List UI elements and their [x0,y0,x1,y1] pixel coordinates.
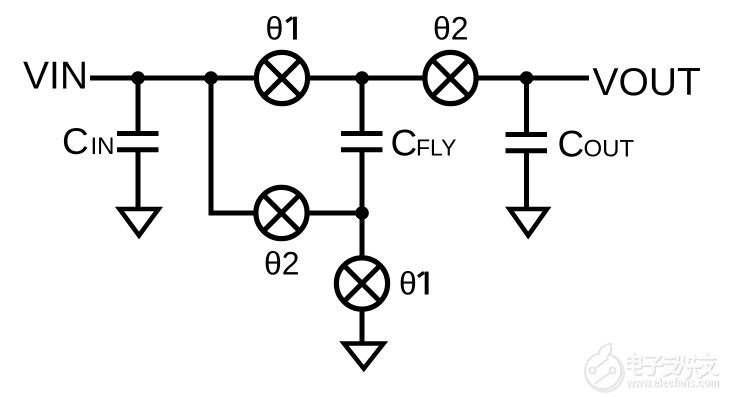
switch U3 phase th2 bottom [256,187,307,238]
svg-text:θ: θ [399,266,417,302]
wire VIN node to switch th1 top [90,76,256,81]
wire bottom rail left [209,211,255,216]
wire switch th1 bottom to ground [360,309,365,342]
junction node at CFLY top [355,71,369,85]
svg-text:C: C [391,123,418,164]
capacitor CIN top lead [136,78,141,134]
junction node at branch x211 [204,71,218,85]
switch U4 phase th1 bottom [336,258,387,309]
wire branch x211 vertical [209,78,214,215]
switch U2 phase th2 top [425,52,476,103]
junction node at CIN top [131,71,145,85]
capacitor CFLY top lead [360,78,365,134]
wire switch th2 to VOUT [476,76,589,81]
capacitor COUT bottom lead [524,151,529,208]
capacitor COUT plates [506,132,548,137]
svg-text:IN: IN [91,133,115,160]
wire switch th1 to switch th2 top [308,76,425,81]
svg-text:C: C [558,124,585,165]
watermark logo circle [585,344,624,392]
junction node at COUT top [520,71,534,85]
wire CFLY node down to switch th1 bottom [360,213,365,258]
svg-text:OUT: OUT [584,136,635,163]
svg-text:VIN: VIN [23,55,88,98]
capacitor CIN bottom lead [136,150,141,207]
svg-text:C: C [62,121,89,162]
capacitor CFLY bottom lead [360,150,365,213]
ground under COUT [510,209,548,236]
capacitor COUT top lead [524,78,529,135]
ground under switch th1 bottom [344,344,384,369]
svg-text:θ2: θ2 [433,11,469,47]
ground under CIN [120,209,159,236]
svg-text:www.elecfans.com: www.elecfans.com [625,374,718,389]
svg-text:θ: θ [266,11,284,47]
svg-text:FLY: FLY [416,135,456,161]
junction node at CFLY bottom [355,206,369,220]
capacitor CIN plates [117,131,159,136]
wire bottom rail right [308,211,364,216]
svg-text:θ2: θ2 [264,246,300,282]
switch U1 phase th1 top [256,52,307,103]
watermark CJK text 电子发烧友 (drawn strokes) [628,354,718,379]
svg-text:VOUT: VOUT [593,61,701,104]
capacitor CFLY plates [341,131,383,136]
